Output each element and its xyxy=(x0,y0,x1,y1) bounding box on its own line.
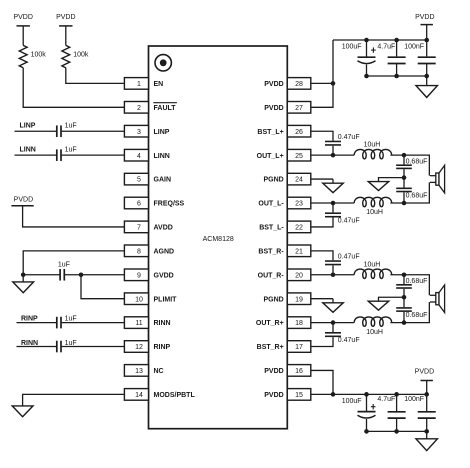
svg-text:1uF: 1uF xyxy=(58,261,70,268)
svg-text:10uH: 10uH xyxy=(364,142,381,149)
wire top supply rail xyxy=(333,39,427,41)
IC U1 ACM8128 body xyxy=(149,46,288,429)
pin 25 box (OUT_L+) xyxy=(287,149,311,161)
svg-text:0.47uF: 0.47uF xyxy=(338,217,360,224)
junction bottom rail at PVDD/C6 xyxy=(424,392,429,397)
svg-text:PVDD: PVDD xyxy=(264,392,283,399)
wire filter midpoint to ground (L) xyxy=(379,178,405,182)
wire speaker - lead (L) xyxy=(428,182,430,203)
wire R2 bottom to pin 1 EN xyxy=(66,68,125,84)
svg-text:4: 4 xyxy=(137,153,141,160)
capacitor 0.68uF (OUT_R- filter) xyxy=(403,297,405,307)
ground (MODS/PBTL) xyxy=(12,406,33,417)
pin 8 box (AGND) xyxy=(124,245,148,257)
capacitor 0.68uF (OUT_R+ filter) xyxy=(403,275,405,284)
junction output node R+ xyxy=(402,272,407,277)
wire pin OUT_L- to inductor xyxy=(311,202,354,204)
wire GVDD node to pin 10 PLIMIT xyxy=(81,275,124,299)
resistor R2 100k xyxy=(62,45,70,67)
svg-text:LINP: LINP xyxy=(20,123,36,130)
capacitor C1 100uF electrolytic xyxy=(366,40,368,57)
svg-text:PVDD: PVDD xyxy=(13,14,32,21)
svg-text:PVDD: PVDD xyxy=(14,197,33,204)
wire pin OUT_R+ to inductor xyxy=(311,274,354,276)
svg-text:27: 27 xyxy=(295,105,303,112)
inductor 10uH (OUT_L-) xyxy=(354,197,392,206)
capacitor 1uF (LINN coupling) xyxy=(56,149,58,161)
junction rail at C2 xyxy=(394,38,399,43)
junction bottom rail at C5 bottom xyxy=(394,429,399,434)
svg-text:12: 12 xyxy=(135,344,143,351)
wire coupling cap to pin 3 xyxy=(62,130,125,132)
wire speaker - lead (R) xyxy=(428,302,430,323)
pin 28 box (PVDD) xyxy=(287,78,311,90)
svg-text:26: 26 xyxy=(295,129,303,136)
pin 5 box (GAIN) xyxy=(124,173,148,185)
capacitor C4 100uF electrolytic xyxy=(366,394,368,411)
svg-text:0.68uF: 0.68uF xyxy=(406,278,428,285)
pin 12 box (RINP) xyxy=(124,341,148,353)
pin 17 box (BST_R+) xyxy=(287,341,311,353)
junction bottom rail at C4 xyxy=(364,392,369,397)
svg-text:PGND: PGND xyxy=(263,296,283,303)
capacitor 1uF (RINN coupling) xyxy=(56,341,58,353)
svg-text:4.7uF: 4.7uF xyxy=(377,396,395,403)
svg-text:0.47uF: 0.47uF xyxy=(338,134,360,141)
speaker SPKR xyxy=(430,294,436,296)
junction rail at PVDD/C3 xyxy=(424,38,429,43)
wire pin BST_R+ bootstrap stub xyxy=(311,251,333,260)
junction OUT_L+ / bootstrap xyxy=(331,153,336,158)
svg-text:RINP: RINP xyxy=(21,316,38,323)
svg-text:PLIMIT: PLIMIT xyxy=(154,296,178,303)
svg-text:100uF: 100uF xyxy=(342,44,362,51)
svg-text:100k: 100k xyxy=(73,52,89,59)
wire RINN input to coupling cap xyxy=(17,346,57,348)
capacitor C6 100nF xyxy=(426,394,428,411)
svg-text:PVDD: PVDD xyxy=(415,14,434,21)
wire ground node to GVDD cap xyxy=(23,274,60,276)
pin 21 box (BST_R-) xyxy=(287,245,311,257)
svg-text:PVDD: PVDD xyxy=(415,368,434,375)
junction filter midpoint R xyxy=(402,295,407,300)
svg-text:10uH: 10uH xyxy=(366,329,383,336)
svg-text:5: 5 xyxy=(137,177,141,184)
ground (PGND L channel) xyxy=(332,179,334,183)
wire pin OUT_L+ to inductor xyxy=(311,154,354,156)
pin 20 box (OUT_R-) xyxy=(287,269,311,281)
wire inductor to output node L- xyxy=(390,202,430,204)
wire coupling cap to pin 11 xyxy=(62,322,125,324)
junction bottom rail at C3 xyxy=(424,74,429,79)
svg-text:OUT_L-: OUT_L- xyxy=(258,201,284,208)
ground (PGND R channel) xyxy=(332,299,334,303)
resistor R1 100k xyxy=(19,45,27,67)
wire filter midpoint to ground (R) xyxy=(379,297,405,301)
junction bottom rail at C2 xyxy=(394,74,399,79)
pin 9 box (GVDD) xyxy=(124,269,148,281)
svg-text:23: 23 xyxy=(295,201,303,208)
wire inductor to output node R+ xyxy=(390,274,430,276)
pin 24 box (PGND) xyxy=(287,173,311,185)
svg-text:22: 22 xyxy=(295,225,303,232)
speaker SPKL xyxy=(430,175,436,177)
pin 3 box (LINP) xyxy=(124,125,148,137)
svg-text:20: 20 xyxy=(295,272,303,279)
capacitor 1uF (RINP coupling) xyxy=(56,317,58,329)
svg-text:6: 6 xyxy=(137,201,141,208)
wire pin 15 PVDD rail xyxy=(311,393,427,395)
svg-text:FREQ/SS: FREQ/SS xyxy=(154,201,185,208)
junction OUT_R+ / bootstrap xyxy=(331,272,336,277)
svg-text:BST_L-: BST_L- xyxy=(259,225,284,232)
pin 15 box (PVDD) xyxy=(287,389,311,401)
pin 1 box (EN) xyxy=(124,78,148,90)
junction bottom rail at C6 bottom xyxy=(424,429,429,434)
wire speaker + lead (L) xyxy=(428,155,430,176)
wire R1 bottom to pin 2 FAULT xyxy=(23,68,124,108)
wire bootstrap cap to OUT_L- wire xyxy=(332,203,334,212)
svg-text:BST_R-: BST_R- xyxy=(258,248,284,255)
svg-text:1uF: 1uF xyxy=(65,123,77,130)
FAULT overline xyxy=(153,102,177,104)
capacitor C5 4.7uF xyxy=(396,394,398,411)
wire PVDD to R2 top xyxy=(65,26,67,46)
pin 6 box (FREQ/SS) xyxy=(124,197,148,209)
wire pin OUT_R- to inductor xyxy=(311,322,354,324)
junction OUT_L- / bootstrap xyxy=(331,201,336,206)
svg-text:BST_R+: BST_R+ xyxy=(257,344,284,351)
svg-text:16: 16 xyxy=(295,368,303,375)
svg-text:LINN: LINN xyxy=(20,147,36,154)
svg-text:RINN: RINN xyxy=(21,340,38,347)
capacitor 0.47uF (BST_R+) xyxy=(325,260,341,262)
svg-text:BST_L+: BST_L+ xyxy=(257,129,283,136)
wire PVDD flag to bottom rail xyxy=(426,381,428,395)
capacitor 0.68uF (OUT_L- filter) xyxy=(403,178,405,188)
svg-text:FAULT: FAULT xyxy=(154,105,177,112)
svg-text:10: 10 xyxy=(135,296,143,303)
pin 22 box (BST_L-) xyxy=(287,221,311,233)
svg-text:0.47uF: 0.47uF xyxy=(338,254,360,261)
wire pin BST_R- bootstrap stub xyxy=(311,337,333,346)
pin 7 box (AVDD) xyxy=(124,221,148,233)
svg-text:3: 3 xyxy=(137,129,141,136)
pin 26 box (BST_L+) xyxy=(287,125,311,137)
junction bottom rail at C1 xyxy=(364,74,369,79)
svg-text:18: 18 xyxy=(295,320,303,327)
pin 19 box (PGND) xyxy=(287,293,311,305)
wire speaker + lead (R) xyxy=(428,275,430,296)
pin 10 box (PLIMIT) xyxy=(124,293,148,305)
wire pin PGND stub (R channel) xyxy=(311,298,333,300)
junction pin28 node xyxy=(331,81,336,86)
svg-text:100uF: 100uF xyxy=(342,398,362,405)
svg-text:24: 24 xyxy=(295,177,303,184)
wire PVDD to pin 7 AVDD xyxy=(23,206,125,227)
wire pin PGND stub (L channel) xyxy=(311,178,333,180)
capacitor 0.47uF (BST_R-) xyxy=(325,332,341,334)
svg-text:7: 7 xyxy=(137,225,141,232)
pin 4 box (LINN) xyxy=(124,149,148,161)
pin 14 box (MODS/PBTL) xyxy=(124,389,148,401)
svg-text:AVDD: AVDD xyxy=(154,225,173,232)
ground (top bank) xyxy=(426,76,428,86)
wire pin 8 AGND to ground node xyxy=(23,251,124,275)
pin 1 indicator mark xyxy=(155,55,171,71)
capacitor 0.68uF (OUT_L+ filter) xyxy=(403,155,405,164)
polarity mark + (C1) xyxy=(372,47,374,52)
ground (filter midpoint R) xyxy=(368,301,389,310)
wire inductor to output node L+ xyxy=(390,154,430,156)
capacitor C2 4.7uF xyxy=(396,40,398,56)
wire bottom rail of bottom bank xyxy=(367,430,427,432)
svg-text:LINP: LINP xyxy=(154,129,170,136)
svg-text:19: 19 xyxy=(295,296,303,303)
svg-text:LINN: LINN xyxy=(154,153,170,160)
svg-text:OUT_L+: OUT_L+ xyxy=(257,153,284,160)
wire bootstrap cap to OUT_R+ wire xyxy=(332,265,334,274)
svg-text:OUT_R-: OUT_R- xyxy=(258,272,285,279)
pin 13 box (NC) xyxy=(124,365,148,377)
svg-text:9: 9 xyxy=(137,272,141,279)
ground (filter midpoint L) xyxy=(368,182,389,191)
wire pin 14 MODS/PBTL to ground xyxy=(23,394,125,406)
svg-text:100k: 100k xyxy=(31,52,47,59)
svg-text:21: 21 xyxy=(295,248,303,255)
wire bootstrap cap to OUT_R- wire xyxy=(332,323,334,332)
wire RINP input to coupling cap xyxy=(17,322,57,324)
svg-text:100nF: 100nF xyxy=(404,44,424,51)
wire LINN input to coupling cap xyxy=(15,154,57,156)
svg-text:ACM8128: ACM8128 xyxy=(203,236,234,243)
wire pin 28 PVDD to supply rail xyxy=(311,82,333,84)
pin 2 box (FAULT) xyxy=(124,102,148,114)
wire bottom rail of top bank xyxy=(367,75,427,77)
wire bootstrap cap to OUT_L+ wire xyxy=(332,146,334,155)
junction GVDD/PLIMIT node xyxy=(79,272,84,277)
svg-text:PVDD: PVDD xyxy=(264,105,283,112)
svg-text:NC: NC xyxy=(154,368,164,375)
wire coupling cap to pin 12 xyxy=(62,346,125,348)
junction output node R- xyxy=(402,320,407,325)
junction output node L+ xyxy=(402,153,407,158)
svg-text:11: 11 xyxy=(135,320,142,327)
junction AGND/GVDD node xyxy=(21,272,26,277)
svg-text:AGND: AGND xyxy=(154,248,175,255)
svg-text:1uF: 1uF xyxy=(65,340,77,347)
wire inductor to output node R- xyxy=(390,322,430,324)
svg-text:0.68uF: 0.68uF xyxy=(406,159,428,166)
wire pin 16 PVDD to supply rail xyxy=(311,370,333,394)
svg-text:2: 2 xyxy=(137,105,141,112)
wire coupling cap to pin 4 xyxy=(62,154,125,156)
svg-text:14: 14 xyxy=(135,392,143,399)
svg-text:17: 17 xyxy=(295,344,303,351)
svg-text:0.47uF: 0.47uF xyxy=(338,337,360,344)
svg-text:RINP: RINP xyxy=(154,344,171,351)
ground (bottom bank) xyxy=(426,431,428,438)
wire pin BST_L+ bootstrap stub xyxy=(311,131,333,140)
junction bottom rail at C5 xyxy=(394,392,399,397)
polarity mark + (C4) xyxy=(372,404,374,409)
svg-text:1uF: 1uF xyxy=(65,316,77,323)
pin 18 box (OUT_R+) xyxy=(287,317,311,329)
svg-text:PGND: PGND xyxy=(263,177,283,184)
svg-text:0.68uF: 0.68uF xyxy=(406,312,428,319)
wire PVDD flag to rail xyxy=(426,25,428,40)
capacitor 1uF (LINP coupling) xyxy=(56,125,58,137)
capacitor 0.47uF (BST_L-) xyxy=(325,212,341,214)
wire LINP input to coupling cap xyxy=(15,130,57,132)
svg-text:100nF: 100nF xyxy=(404,396,424,403)
junction rail at C1 xyxy=(364,38,369,43)
svg-text:MODS/PBTL: MODS/PBTL xyxy=(154,392,196,399)
pin 11 box (RINN) xyxy=(124,317,148,329)
wire PVDD to R1 top xyxy=(22,26,24,46)
svg-text:13: 13 xyxy=(135,368,143,375)
capacitor C3 100nF xyxy=(426,40,428,56)
svg-text:10uH: 10uH xyxy=(366,209,383,216)
svg-text:1: 1 xyxy=(137,81,141,88)
svg-text:1uF: 1uF xyxy=(65,147,77,154)
junction filter midpoint L xyxy=(402,175,407,180)
wire pin 27 PVDD to supply rail xyxy=(311,40,333,107)
svg-text:10uH: 10uH xyxy=(364,261,381,268)
pin 16 box (PVDD) xyxy=(287,365,311,377)
svg-text:EN: EN xyxy=(154,81,164,88)
ground (analog ground) xyxy=(22,275,24,282)
svg-text:OUT_R+: OUT_R+ xyxy=(256,320,284,327)
svg-text:15: 15 xyxy=(295,392,303,399)
svg-text:GVDD: GVDD xyxy=(154,272,174,279)
inductor 10uH (OUT_R-) xyxy=(354,317,392,326)
svg-text:0.68uF: 0.68uF xyxy=(406,192,428,199)
wire GVDD cap to pin 9 GVDD xyxy=(64,274,124,276)
capacitor 1uF (GVDD decoupling) xyxy=(59,269,61,281)
svg-text:28: 28 xyxy=(295,81,303,88)
inductor 10uH (OUT_R+) xyxy=(354,269,392,278)
svg-text:8: 8 xyxy=(137,248,141,255)
svg-text:RINN: RINN xyxy=(154,320,171,327)
junction pin15/pin16 node xyxy=(331,392,336,397)
pin 23 box (OUT_L-) xyxy=(287,197,311,209)
svg-text:PVDD: PVDD xyxy=(264,368,283,375)
junction output node L- xyxy=(402,201,407,206)
capacitor 0.47uF (BST_L+) xyxy=(325,140,341,142)
svg-text:PVDD: PVDD xyxy=(264,81,283,88)
svg-text:GAIN: GAIN xyxy=(154,177,172,184)
junction OUT_R- / bootstrap xyxy=(331,320,336,325)
svg-text:25: 25 xyxy=(295,153,303,160)
svg-text:4.7uF: 4.7uF xyxy=(377,44,395,51)
inductor 10uH (OUT_L+) xyxy=(354,149,392,158)
pin 27 box (PVDD) xyxy=(287,102,311,114)
svg-text:PVDD: PVDD xyxy=(56,14,75,21)
junction bottom rail at C4 bottom xyxy=(364,429,369,434)
wire pin BST_L- bootstrap stub xyxy=(311,218,333,227)
